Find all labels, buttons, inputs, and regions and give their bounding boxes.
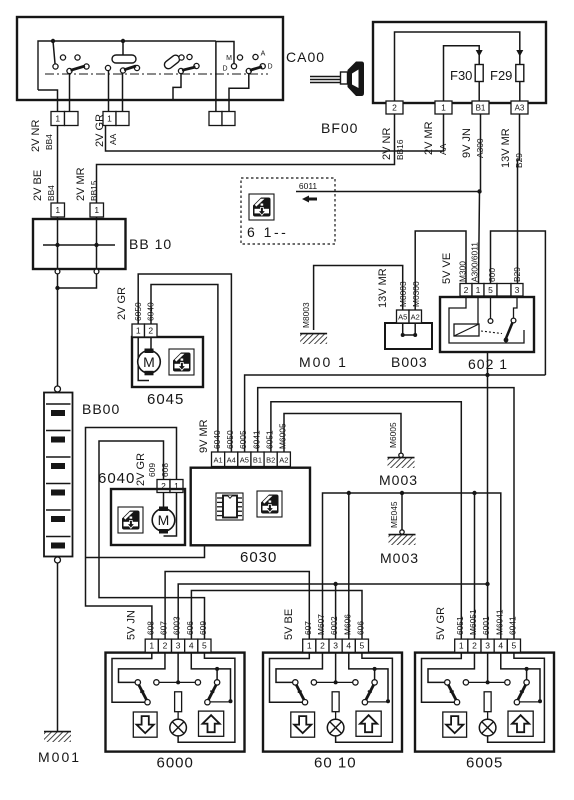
60 10 lamp bbox=[327, 719, 344, 736]
6021 label bbox=[468, 356, 508, 372]
6005 label bbox=[466, 755, 503, 772]
svg-text:2V GR: 2V GR bbox=[135, 453, 147, 486]
6005 up arrow icon bbox=[508, 711, 533, 736]
window motor unit 6040 outer frame / wire 608 bbox=[86, 428, 177, 640]
ignition switch CA00 bbox=[17, 17, 283, 100]
svg-text:6040: 6040 bbox=[212, 430, 222, 449]
IC chip icon 6030 bbox=[216, 493, 243, 520]
6021 pin labels bbox=[441, 242, 522, 284]
svg-text:600: 600 bbox=[487, 268, 497, 282]
6005 centre contact line bbox=[469, 680, 505, 684]
B003 pin A5 bbox=[397, 310, 410, 323]
label 2V GR AA bbox=[94, 114, 118, 147]
BF00 pin B1 bbox=[472, 101, 489, 114]
BF00 pin labels bbox=[381, 121, 524, 168]
svg-text:A: A bbox=[261, 51, 266, 58]
svg-text:3: 3 bbox=[515, 285, 520, 295]
svg-text:2: 2 bbox=[472, 641, 477, 651]
6005 connector pins 1-5 bbox=[455, 639, 521, 652]
svg-text:6050: 6050 bbox=[225, 430, 235, 449]
svg-text:6051: 6051 bbox=[264, 430, 274, 449]
6000 pin labels bbox=[126, 610, 208, 640]
fuse box BF00 bbox=[373, 22, 546, 103]
svg-text:6051: 6051 bbox=[455, 616, 465, 635]
wire 607 switch 6000 pin2 to 6010 pin1 bbox=[165, 572, 309, 640]
svg-text:2: 2 bbox=[320, 641, 325, 651]
6045 pin 2 bbox=[145, 324, 158, 337]
svg-text:F30: F30 bbox=[450, 68, 472, 83]
svg-text:F29: F29 bbox=[490, 68, 512, 83]
6000 right rocker bbox=[195, 680, 232, 705]
6000 left rocker bbox=[135, 680, 159, 705]
wire 6051 6030 B2 to switch 6005 pin1 bbox=[271, 402, 461, 639]
svg-text:B2: B2 bbox=[266, 455, 275, 464]
svg-text:13V MR: 13V MR bbox=[500, 128, 512, 168]
svg-text:607: 607 bbox=[158, 621, 168, 635]
wire 6021 output down bbox=[487, 352, 489, 375]
window switch 60 10 bbox=[263, 653, 402, 752]
wire M0300 B003 to 6021 pin2 bbox=[415, 231, 466, 310]
CA00 internal bus wire bbox=[38, 41, 216, 90]
6000 pin2 wire to left rocker pivot bbox=[119, 652, 165, 682]
wire 9V JN A300 BF00 B1 to 6021 pin1 bbox=[479, 115, 481, 284]
wire BB10 to battery bbox=[55, 274, 96, 386]
60 10 down arrow icon bbox=[291, 712, 315, 737]
BF00 label bbox=[321, 120, 358, 136]
6000 label bbox=[157, 755, 194, 772]
6021 connector pins bbox=[460, 284, 523, 297]
battery BB00 bbox=[44, 386, 73, 563]
svg-text:M6041: M6041 bbox=[494, 609, 504, 635]
ground bus wire M607 M606 ME045 M6051 M6041 bbox=[323, 493, 501, 639]
svg-text:608: 608 bbox=[145, 621, 155, 635]
connector below CA00 sw1 bbox=[51, 112, 78, 126]
svg-text:5V VE: 5V VE bbox=[441, 253, 453, 284]
6005 pin2 wire to left rocker pivot bbox=[428, 652, 474, 682]
svg-text:B1: B1 bbox=[476, 104, 486, 113]
BB10 internal bus bbox=[43, 217, 115, 269]
6021 relay contact bbox=[481, 296, 517, 343]
M8003 wire label bbox=[301, 302, 311, 328]
wire 2V GR AA connector B to BF00 pin1 bbox=[106, 115, 444, 152]
text 61-- bbox=[247, 224, 288, 240]
svg-text:6000: 6000 bbox=[157, 755, 194, 772]
6000 down arrow icon bbox=[133, 712, 157, 737]
wire M6005 6030 A2 to ground M003 bbox=[284, 414, 401, 454]
wire 6041 6030 B1 to switch 6005 pin5 bbox=[258, 388, 514, 639]
6040 motor box bbox=[111, 489, 185, 545]
svg-text:5: 5 bbox=[202, 641, 207, 651]
svg-text:6005: 6005 bbox=[466, 755, 503, 772]
ignition contact set 4 bbox=[216, 42, 273, 112]
svg-text:9V MR: 9V MR bbox=[198, 419, 210, 453]
6045 label bbox=[147, 391, 184, 408]
svg-text:1: 1 bbox=[441, 103, 446, 113]
wire 6040 frame to 6030 bbox=[86, 546, 205, 558]
6030 label bbox=[240, 549, 277, 566]
6005 right rocker bbox=[505, 680, 542, 705]
svg-text:606: 606 bbox=[185, 621, 195, 635]
ME045 wire label bbox=[389, 501, 399, 528]
svg-text:3: 3 bbox=[333, 641, 338, 651]
mechanical linkage dash-dot line bbox=[45, 73, 268, 75]
svg-text:M6005: M6005 bbox=[278, 423, 288, 449]
BB10 pin labels bbox=[32, 167, 99, 201]
svg-text:6041: 6041 bbox=[507, 616, 517, 635]
B003 pin A2 bbox=[409, 310, 422, 323]
6040 pin labels bbox=[135, 453, 170, 486]
6000 pin4 wire to right rocker bbox=[191, 652, 230, 701]
ignition contact set 1 bbox=[53, 41, 89, 74]
60 10 pin labels bbox=[283, 609, 365, 640]
60 10 connector pins 1-5 bbox=[303, 639, 369, 652]
6040 inner frame / wire 609 bbox=[99, 441, 205, 639]
6011 wire label bbox=[299, 181, 318, 191]
60 10 pin2 wire to left rocker pivot bbox=[276, 652, 322, 682]
60 10 label bbox=[314, 755, 357, 772]
svg-text:A2: A2 bbox=[279, 455, 288, 464]
wire M8003 B003 to ground M001 bbox=[314, 266, 403, 331]
svg-text:A5: A5 bbox=[240, 455, 249, 464]
svg-text:4: 4 bbox=[498, 641, 503, 651]
6005 lamp bbox=[479, 719, 496, 736]
wire 6001 supply riser bbox=[487, 375, 489, 584]
6005 lamp resistor bbox=[484, 692, 491, 720]
wire 2V NR BB4 connector A to BB10 bbox=[57, 126, 59, 204]
60 10 pin5 wire and lamp return bbox=[336, 652, 393, 742]
6000 pin5 wire and lamp return bbox=[178, 652, 235, 742]
svg-text:M0300: M0300 bbox=[411, 281, 421, 307]
svg-text:A4: A4 bbox=[227, 455, 236, 464]
svg-text:9V JN: 9V JN bbox=[461, 128, 473, 158]
window switch 6005 bbox=[415, 653, 554, 752]
svg-text:CA00: CA00 bbox=[286, 49, 325, 65]
6000 pin3 wire bbox=[177, 652, 179, 682]
ground M003 upper bbox=[379, 453, 418, 488]
svg-text:M003: M003 bbox=[380, 550, 419, 566]
svg-text:A3: A3 bbox=[515, 104, 525, 113]
svg-text:6002: 6002 bbox=[329, 616, 339, 635]
wire 6011 to node A300/6011 bbox=[296, 191, 480, 193]
svg-text:BB4: BB4 bbox=[46, 185, 56, 201]
connector below CA00 sw4 bbox=[209, 112, 235, 126]
svg-text:M: M bbox=[226, 55, 232, 62]
svg-text:3: 3 bbox=[176, 641, 181, 651]
svg-text:1: 1 bbox=[476, 285, 481, 295]
6021 relay coil bbox=[449, 296, 524, 343]
60 10 left rocker bbox=[293, 680, 317, 705]
svg-text:2V GR: 2V GR bbox=[116, 287, 128, 320]
svg-text:60 10: 60 10 bbox=[314, 755, 357, 772]
6000 connector pins 1-5 bbox=[145, 639, 211, 652]
6005 pin labels bbox=[435, 607, 517, 640]
wire bus to connector cell 1 bbox=[38, 90, 58, 112]
wire 6005 bus 6030 A5 to relay output bbox=[245, 375, 546, 452]
svg-text:AA: AA bbox=[108, 133, 118, 145]
ground M001 bottom left bbox=[38, 731, 81, 765]
wire battery to ground bbox=[57, 563, 59, 731]
6045 pin labels bbox=[116, 287, 156, 321]
svg-text:1: 1 bbox=[55, 114, 60, 124]
motor M 6040 bbox=[152, 493, 176, 537]
svg-text:M001: M001 bbox=[38, 749, 81, 765]
60 10 right rocker bbox=[353, 680, 390, 705]
svg-text:BF00: BF00 bbox=[321, 120, 358, 136]
connector B003 bbox=[385, 323, 432, 349]
label 2V NR BB4 bbox=[30, 120, 54, 152]
svg-text:4: 4 bbox=[346, 641, 351, 651]
svg-text:2V GR: 2V GR bbox=[94, 114, 106, 147]
svg-text:2V BE: 2V BE bbox=[32, 170, 44, 201]
window motor unit 6045 bbox=[132, 337, 203, 387]
wire ME045 to ground bbox=[400, 491, 404, 534]
svg-text:6011: 6011 bbox=[299, 181, 318, 191]
svg-text:5: 5 bbox=[488, 285, 493, 295]
svg-text:M606: M606 bbox=[342, 614, 352, 635]
BB10 label bbox=[129, 236, 172, 252]
6040 pin 2 bbox=[157, 480, 170, 493]
wire 13V MR B29 BF00 A3 to 6021 pin3 bbox=[518, 115, 520, 284]
6005 down arrow icon bbox=[443, 712, 467, 737]
svg-text:D: D bbox=[267, 64, 272, 71]
svg-text:2: 2 bbox=[464, 285, 469, 295]
svg-text:ME045: ME045 bbox=[389, 501, 399, 528]
svg-text:2: 2 bbox=[163, 641, 168, 651]
svg-text:BB4: BB4 bbox=[44, 134, 54, 150]
junction on bus 2 bbox=[121, 39, 125, 43]
arrow left in 6011 box bbox=[302, 196, 317, 203]
svg-text:5: 5 bbox=[512, 641, 517, 651]
6005 pin5 wire and lamp return bbox=[488, 652, 545, 742]
wire 2V NR BB16 BF00 pin2 to BB10 bbox=[97, 115, 395, 204]
wire 606 switch 6000 pin4 to 6010 pin5 bbox=[191, 591, 362, 640]
B003 label bbox=[391, 354, 428, 370]
svg-text:6 1--: 6 1-- bbox=[247, 224, 288, 240]
svg-text:M6051: M6051 bbox=[468, 609, 478, 635]
6030 pin labels bbox=[198, 419, 288, 453]
junction relay output bbox=[485, 373, 489, 377]
svg-text:2V MR: 2V MR bbox=[75, 167, 87, 201]
svg-text:2: 2 bbox=[148, 326, 153, 336]
60 10 centre contact line bbox=[317, 680, 353, 684]
svg-text:609: 609 bbox=[198, 621, 208, 635]
svg-text:6045: 6045 bbox=[147, 391, 184, 408]
svg-text:BB16: BB16 bbox=[395, 139, 405, 160]
6040 label bbox=[98, 470, 135, 487]
svg-text:3: 3 bbox=[485, 641, 490, 651]
6005 pin3 wire bbox=[487, 652, 489, 682]
ground M001 centre bbox=[299, 333, 348, 370]
6045 pin 1 bbox=[132, 324, 145, 337]
svg-text:6040: 6040 bbox=[98, 470, 135, 487]
60 10 pin1 wire to left contact bbox=[270, 652, 310, 702]
svg-text:BB15: BB15 bbox=[89, 180, 99, 201]
svg-text:M: M bbox=[158, 512, 170, 528]
BF00 pin 1 bbox=[435, 101, 452, 114]
motor M 6045 bbox=[138, 337, 161, 381]
6000 lamp bbox=[170, 719, 187, 736]
relay 6021 bbox=[440, 297, 534, 352]
svg-text:6003: 6003 bbox=[172, 616, 182, 635]
svg-text:13V MR: 13V MR bbox=[377, 268, 389, 308]
6000 up arrow icon bbox=[199, 711, 224, 736]
svg-text:1: 1 bbox=[55, 205, 60, 215]
svg-text:4: 4 bbox=[189, 641, 194, 651]
wire sw2 wiper down bbox=[122, 73, 124, 112]
6005 pin4 wire to right rocker bbox=[501, 652, 540, 701]
svg-text:M607: M607 bbox=[316, 614, 326, 635]
svg-text:1: 1 bbox=[459, 641, 464, 651]
wire sw2 left contact down bbox=[108, 71, 110, 112]
60 10 lamp resistor bbox=[332, 692, 339, 720]
svg-text:B1: B1 bbox=[253, 455, 262, 464]
svg-text:5V BE: 5V BE bbox=[283, 609, 295, 640]
svg-text:1: 1 bbox=[307, 641, 312, 651]
svg-text:5V JN: 5V JN bbox=[126, 610, 138, 640]
svg-text:5V GR: 5V GR bbox=[435, 607, 447, 640]
B003 pin labels bbox=[377, 268, 421, 308]
svg-text:M003: M003 bbox=[379, 472, 418, 488]
fuse F29 bbox=[490, 50, 524, 101]
6000 centre contact line bbox=[159, 680, 195, 684]
wire M6051 drop bbox=[472, 491, 476, 639]
6000 lamp resistor bbox=[175, 692, 182, 720]
svg-text:M6005: M6005 bbox=[388, 422, 398, 448]
wire 600 6021 pin5 loop bbox=[491, 231, 546, 375]
wire sw1 wiper to connector bbox=[69, 74, 71, 112]
BF00 pin A3 bbox=[511, 101, 528, 114]
window switch 6000 bbox=[106, 653, 245, 752]
BF00 internal wiring bbox=[395, 32, 520, 101]
BB10 pin 1 left bbox=[51, 203, 65, 217]
M6005 wire label bbox=[388, 422, 398, 448]
wire 6050: 6045 pin1 to 6030 A4 bbox=[138, 274, 231, 452]
svg-text:BB 10: BB 10 bbox=[129, 236, 172, 252]
wire 6040: 6045 pin2 to 6030 A1 bbox=[151, 285, 218, 453]
key symbol bbox=[310, 62, 364, 97]
svg-text:M: M bbox=[143, 354, 155, 370]
svg-text:BB00: BB00 bbox=[82, 401, 120, 417]
window icon 6030 bbox=[257, 491, 282, 517]
ground M003 lower bbox=[380, 534, 419, 566]
ignition contact set 3 bbox=[163, 54, 199, 99]
6005 left rocker bbox=[445, 680, 469, 705]
junction node A300/6011 bbox=[477, 189, 481, 193]
junction box BB10 bbox=[33, 219, 126, 269]
BB10 output terminals bbox=[55, 269, 99, 274]
window icon 6040 bbox=[118, 507, 143, 533]
svg-text:606: 606 bbox=[355, 621, 365, 635]
svg-text:2: 2 bbox=[392, 103, 397, 113]
60 10 pin4 wire to right rocker bbox=[349, 652, 388, 701]
6005 pin1 wire to left contact bbox=[422, 652, 462, 702]
supply bus 6003 6002 6001 bbox=[178, 582, 490, 639]
svg-text:2V NR: 2V NR bbox=[30, 120, 42, 152]
svg-text:1: 1 bbox=[149, 641, 154, 651]
BF00 pin 2 bbox=[386, 101, 403, 114]
svg-text:B003: B003 bbox=[391, 354, 428, 370]
connector below CA00 sw2 bbox=[103, 112, 129, 126]
svg-text:1: 1 bbox=[94, 205, 99, 215]
60 10 up arrow icon bbox=[356, 711, 381, 736]
svg-text:1: 1 bbox=[107, 114, 112, 124]
svg-text:607: 607 bbox=[303, 621, 313, 635]
ignition contact set 2 bbox=[105, 41, 139, 73]
wire M606 drop bbox=[347, 491, 351, 639]
6000 pin1 wire to left contact bbox=[112, 652, 152, 702]
6030 connector pins A1 A4 A5 B1 B2 A2 bbox=[212, 452, 291, 467]
6040 pin 1 bbox=[170, 480, 183, 493]
svg-text:609: 609 bbox=[147, 463, 157, 477]
fuse F30 bbox=[450, 50, 483, 101]
svg-text:A1: A1 bbox=[213, 455, 222, 464]
svg-text:A5: A5 bbox=[398, 313, 407, 322]
BB00 label bbox=[82, 401, 120, 417]
junction on bus bbox=[51, 39, 55, 43]
CA00 label bbox=[286, 49, 325, 65]
window icon 6045 bbox=[169, 349, 194, 375]
svg-text:D: D bbox=[222, 66, 227, 73]
svg-text:6005: 6005 bbox=[238, 430, 248, 449]
svg-text:2V MR: 2V MR bbox=[423, 121, 435, 155]
B003 internal link bbox=[401, 323, 418, 337]
control unit 6030 bbox=[191, 468, 310, 546]
svg-text:2V NR: 2V NR bbox=[381, 128, 393, 160]
BB10 pin 1 right bbox=[90, 203, 104, 217]
svg-text:5: 5 bbox=[360, 641, 365, 651]
window icon 6011 bbox=[249, 194, 274, 220]
svg-text:A2: A2 bbox=[411, 313, 420, 322]
feature frame 6011 (dashed) bbox=[241, 178, 335, 244]
svg-text:M8003: M8003 bbox=[301, 302, 311, 328]
svg-text:6030: 6030 bbox=[240, 549, 277, 566]
svg-text:M00 1: M00 1 bbox=[299, 354, 348, 370]
svg-text:6041: 6041 bbox=[251, 430, 261, 449]
60 10 pin3 wire bbox=[335, 652, 337, 682]
svg-text:6001: 6001 bbox=[481, 616, 491, 635]
svg-text:608: 608 bbox=[160, 463, 170, 477]
svg-text:1: 1 bbox=[136, 326, 141, 336]
